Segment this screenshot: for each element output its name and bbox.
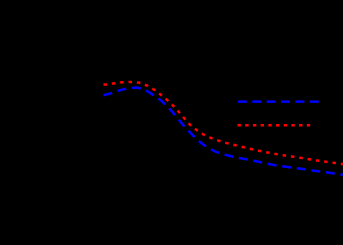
legend red dotted line sample <box>238 124 314 127</box>
red dotted curve <box>104 82 343 164</box>
blue dashed curve <box>104 88 343 175</box>
legend blue dashed line sample <box>238 100 319 103</box>
